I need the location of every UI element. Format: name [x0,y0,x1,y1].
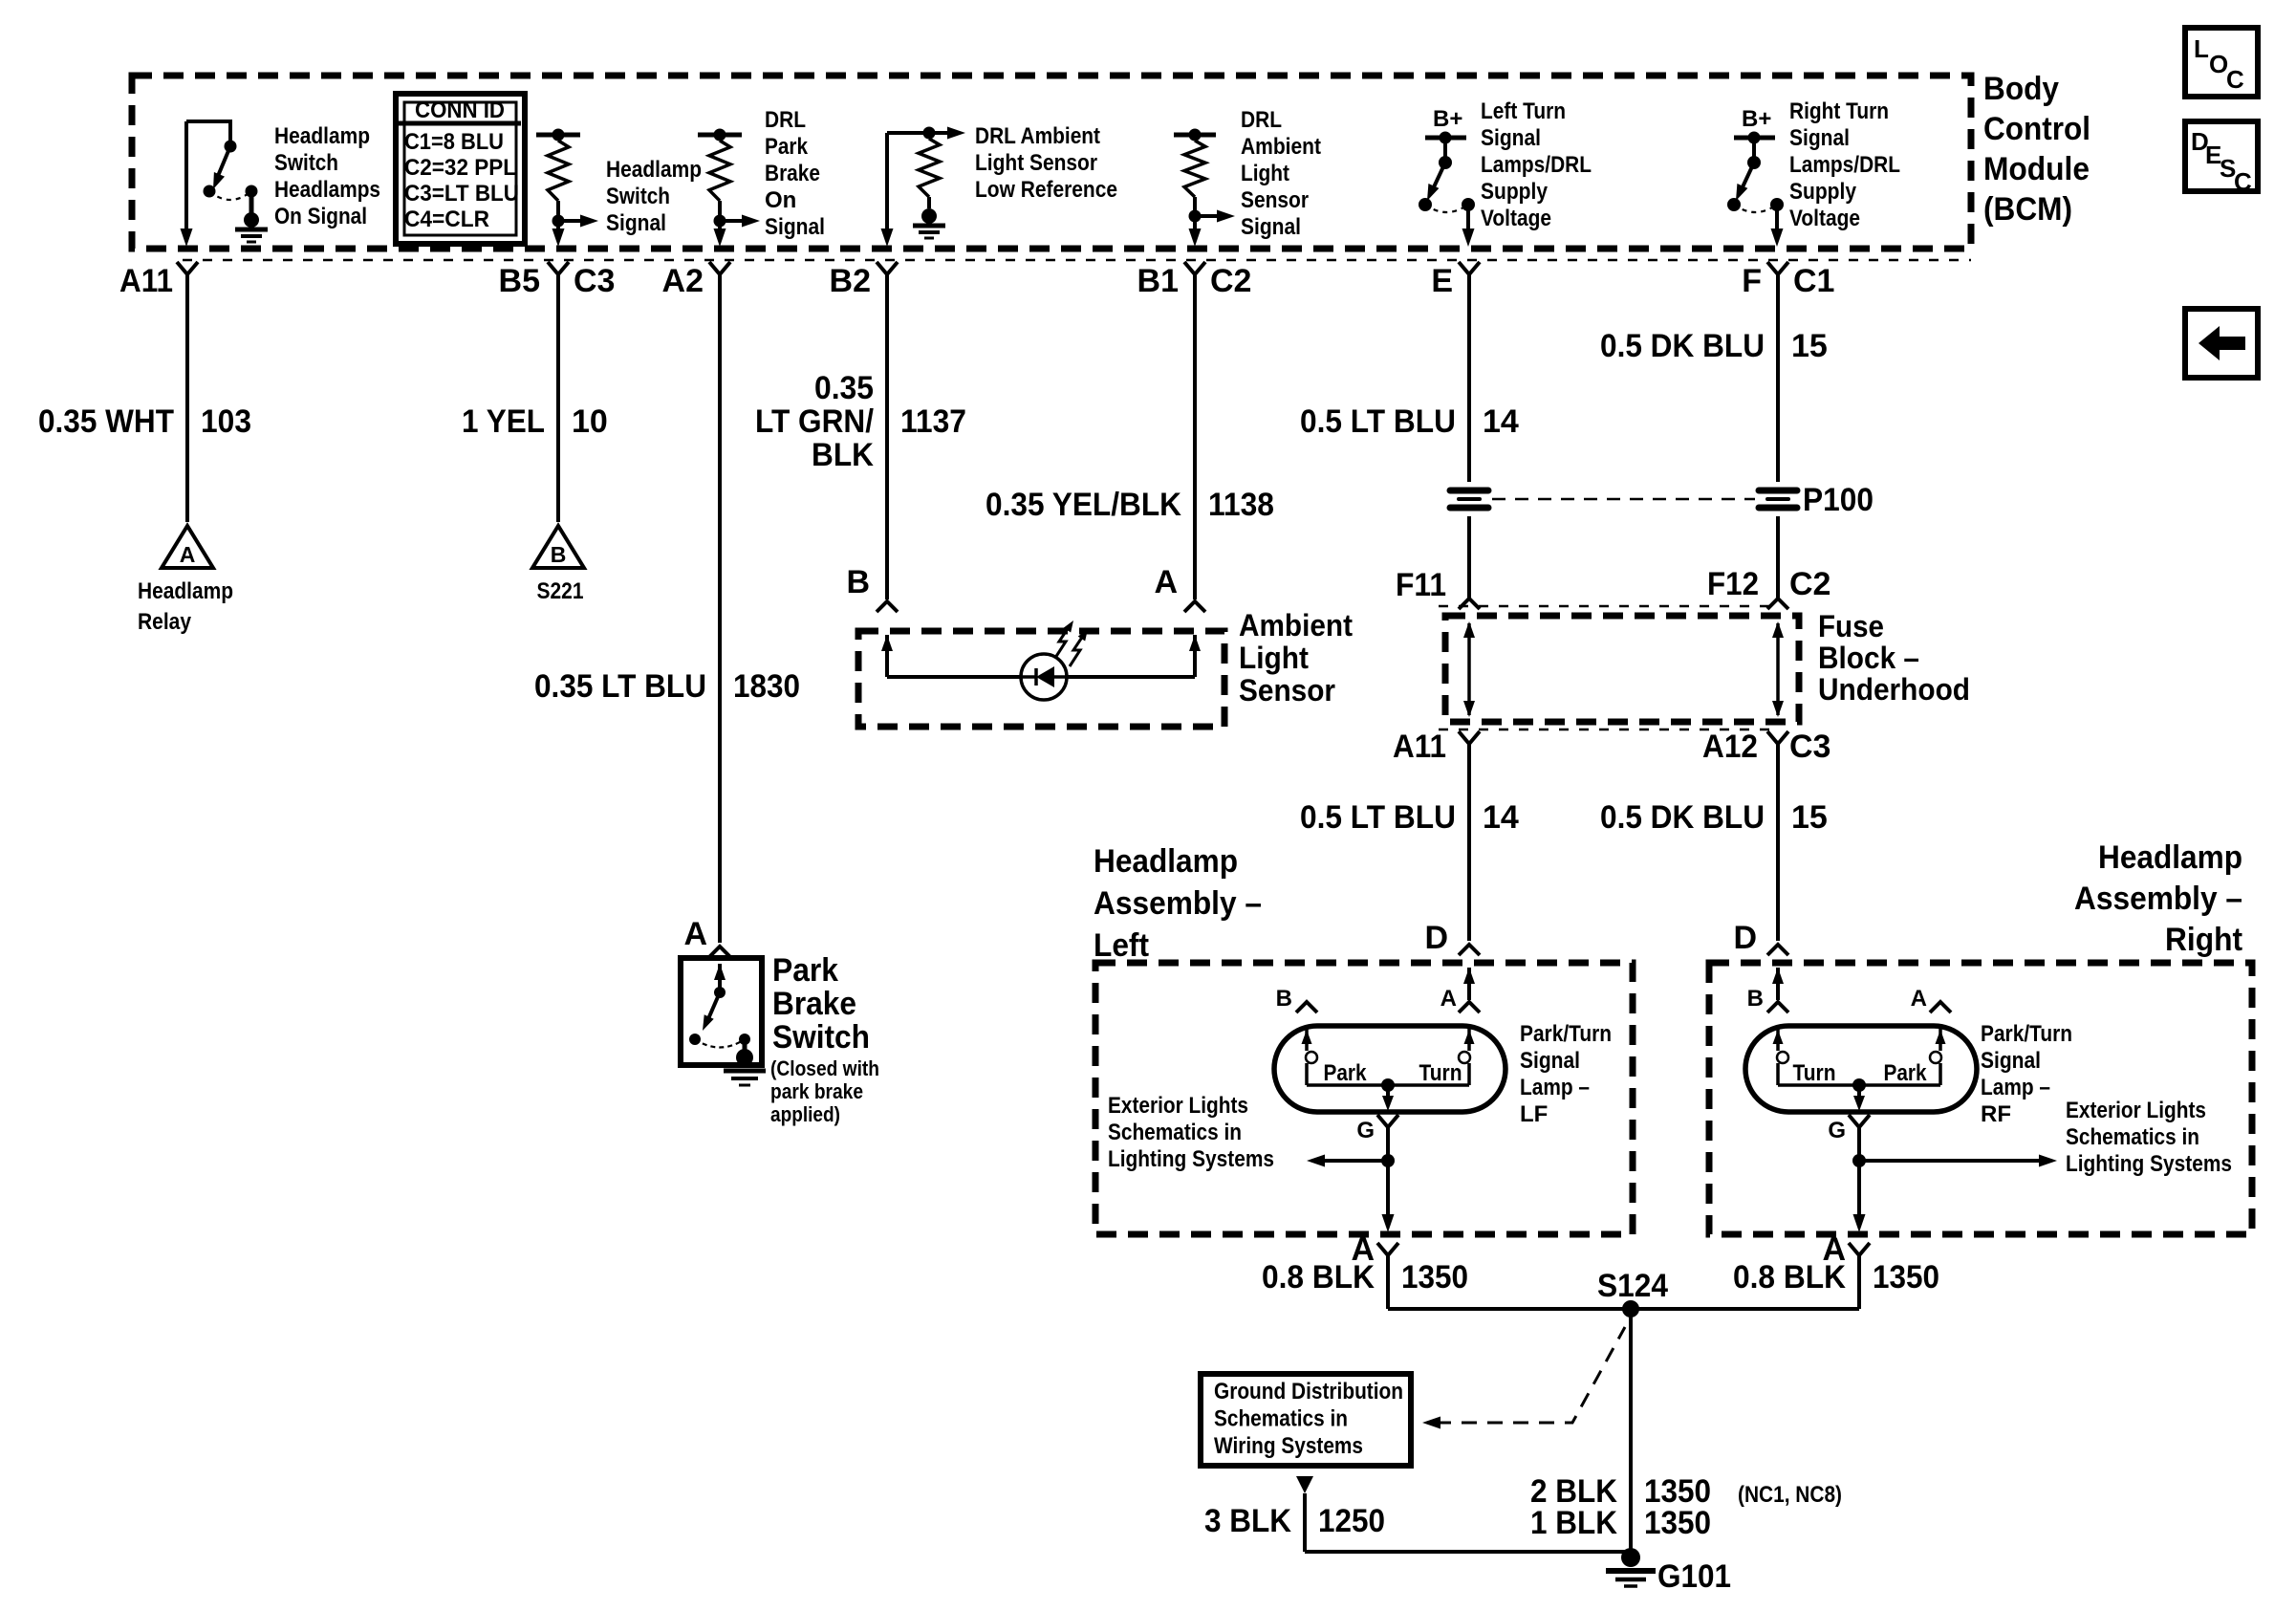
BCM pin connector dashed line [183,259,1971,261]
svg-text:LF: LF [1520,1101,1548,1127]
svg-text:park brake: park brake [770,1079,863,1103]
svg-text:Switch: Switch [772,1019,870,1056]
svg-text:1250: 1250 [1318,1503,1385,1539]
svg-text:C3: C3 [1789,729,1830,765]
svg-text:applied): applied) [770,1102,840,1126]
ALS entry arrow A [1189,635,1201,651]
svg-text:F12: F12 [1707,566,1759,602]
right-turn switch stub [1752,138,1756,161]
wire w7 P100 to fuse block [1776,516,1780,598]
svg-text:B: B [846,564,870,600]
right lamp ground wire [1857,1127,1861,1221]
svg-text:C2=32 PPL: C2=32 PPL [404,155,516,181]
left lamp bulb terminal A chevron [1459,1002,1480,1012]
headlamp switch ground stem [249,191,254,213]
svg-text:0.5 DK BLU: 0.5 DK BLU [1600,328,1765,364]
park brake switch box [681,958,762,1065]
park brake switch left contact dot [689,1034,701,1045]
svg-text:Park: Park [1884,1060,1928,1086]
wire w3 inside BCM [718,221,722,235]
resistor R-headlamp-switch-signal top bar [536,133,580,138]
svg-text:10: 10 [572,403,608,440]
svg-text:On Signal: On Signal [274,204,367,229]
bulb RF left terminal [1776,1026,1780,1051]
svg-text:On: On [765,187,796,213]
right-turn switch bar [1734,136,1775,141]
ALS entry arrow B [881,635,893,651]
svg-text:1 BLK: 1 BLK [1530,1505,1617,1541]
svg-text:Park: Park [765,134,809,160]
bulb LF right terminal [1467,1026,1471,1051]
svg-text:0.5 DK BLU: 0.5 DK BLU [1600,799,1765,836]
svg-text:Light Sensor: Light Sensor [975,150,1097,176]
wire w6 inside BCM [1466,205,1470,235]
svg-text:Schematics in: Schematics in [1108,1120,1242,1145]
headlamp switch pivot dot [225,141,237,153]
resistor low-ref ground [921,208,937,224]
ALS internal wire [887,675,1021,679]
svg-text:Lamp –: Lamp – [1520,1075,1590,1100]
svg-text:A: A [180,542,196,567]
resistor R-park-brake-on top bar [698,133,742,138]
back-arrow legend box [2185,309,2258,378]
resistor R-als-signal zigzag [1184,141,1205,197]
svg-text:C3: C3 [574,263,615,299]
resistor junction dot w2 [552,215,565,228]
resistor R-headlamp-switch-signal zigzag [548,141,569,201]
pin B5 exit arrow [552,229,565,247]
svg-text:B: B [1747,986,1764,1012]
headlamp switch contact dashed arc [209,191,251,200]
park brake pin A chevron [709,947,730,957]
photodiode light arrows [1055,624,1071,658]
svg-text:DRL: DRL [765,107,806,133]
svg-text:Sensor: Sensor [1241,187,1309,213]
svg-text:Light: Light [1241,161,1289,186]
svg-text:0.35 YEL/BLK: 0.35 YEL/BLK [986,487,1181,523]
resistor R-als-signal top dot [1189,129,1202,142]
svg-text:(Closed with: (Closed with [770,1056,879,1080]
wire left lamp to S124 [1386,1255,1390,1309]
svg-text:Turn: Turn [1419,1060,1462,1086]
svg-text:(BCM): (BCM) [1983,191,2072,228]
svg-text:A11: A11 [1393,729,1446,765]
wire w4 inside BCM (up and right) [885,133,889,235]
svg-text:CONN ID: CONN ID [415,98,505,123]
svg-text:Headlamps: Headlamps [274,177,380,203]
park brake switch contact dashed arc [695,1039,745,1048]
wire w5 harness [1193,274,1197,599]
svg-text:F11: F11 [1396,567,1446,603]
branch arrow right w3 [720,219,747,223]
fuse block dashed box [1445,616,1799,722]
wire w7 to P100 [1776,274,1780,482]
park/turn bulb LF outline [1274,1026,1505,1112]
svg-text:F: F [1742,263,1762,299]
right headlamp assembly dashed box [1709,963,2252,1234]
bulb LF filament bus [1307,1083,1469,1087]
pin E exit arrow [1462,229,1475,247]
left lamp G chevron [1377,1115,1398,1127]
right-turn switch pivot dot [1747,156,1761,169]
bulb RF ground lead [1857,1085,1861,1101]
right lamp entry arrow [1772,968,1784,984]
svg-text:Sensor: Sensor [1239,673,1335,708]
svg-text:(NC1, NC8): (NC1, NC8) [1738,1482,1842,1508]
bulb LF center junction dot [1381,1078,1395,1092]
wire w2 inside BCM [556,221,560,235]
wire w1 harness [185,274,189,522]
wire w6 fuse to left lamp [1467,744,1471,941]
svg-text:Underhood: Underhood [1818,672,1970,707]
svg-text:G101: G101 [1657,1558,1731,1595]
svg-text:DRL Ambient: DRL Ambient [975,123,1100,149]
BCM pin chevron at x=1537 [1459,262,1480,274]
svg-text:C1: C1 [1793,263,1834,299]
svg-text:Module: Module [1983,151,2090,187]
right-turn left contact dot [1727,198,1741,211]
svg-text:Headlamp: Headlamp [2098,839,2242,876]
right lamp bulb terminal B chevron [1767,1002,1788,1012]
svg-text:Park: Park [772,952,838,989]
splice S124 dot [1622,1300,1639,1317]
svg-text:Left Turn: Left Turn [1481,98,1566,124]
svg-text:Signal: Signal [1241,214,1301,240]
svg-text:S221: S221 [537,578,584,604]
right-turn right contact dot [1770,198,1784,211]
branch arrow right w5 [1195,214,1222,218]
svg-text:Lighting Systems: Lighting Systems [1108,1146,1274,1172]
svg-text:C1=8 BLU: C1=8 BLU [404,129,504,155]
svg-text:Brake: Brake [765,161,820,186]
svg-text:Headlamp: Headlamp [274,123,370,149]
park brake switch pivot dot [714,987,726,998]
right lamp exit arrow [1853,1214,1866,1232]
svg-text:C2: C2 [1210,263,1251,299]
svg-text:Turn: Turn [1793,1060,1836,1086]
fuse block pin A12 chevron [1767,731,1788,744]
wire w5 inside BCM [1193,216,1197,235]
svg-text:G: G [1828,1118,1846,1143]
svg-text:Switch: Switch [606,184,670,209]
dashed reference link to ground distribution [1436,1327,1625,1423]
left-turn switch bar [1425,136,1466,141]
svg-text:B5: B5 [499,263,540,299]
pin C1 exit arrow [1771,229,1784,247]
svg-text:14: 14 [1483,799,1519,836]
BCM pin chevron at x=584 [548,262,569,274]
wire w7 inside BCM [1775,205,1779,235]
svg-text:Body: Body [1983,71,2059,107]
svg-text:D: D [1424,920,1448,956]
svg-text:Assembly –: Assembly – [1094,885,1262,922]
svg-text:15: 15 [1791,328,1828,364]
left lamp pin A chevron (bottom) [1377,1243,1398,1255]
svg-text:Block –: Block – [1818,641,1919,675]
svg-text:C3=LT BLU: C3=LT BLU [404,181,519,207]
svg-text:A11: A11 [119,263,173,299]
left lamp entry arrow [1463,968,1475,984]
connector P100 right symbol [1759,488,1797,494]
resistor R-headlamp-switch-signal top dot [552,129,565,142]
svg-text:Voltage: Voltage [1789,206,1860,231]
svg-text:B+: B+ [1742,106,1771,132]
ground distribution exit triangle [1296,1476,1313,1493]
bulb LF ground lead [1386,1085,1390,1101]
svg-text:Left: Left [1094,927,1149,964]
pin B1 exit arrow [1189,229,1202,247]
svg-text:Right Turn: Right Turn [1789,98,1889,124]
right lamp branch arrow to exterior lights [1859,1159,2044,1163]
left headlamp assembly dashed box [1095,963,1633,1234]
P100 dashed link [1492,498,1755,501]
svg-text:Exterior Lights: Exterior Lights [2066,1098,2206,1123]
ALS pin A chevron [1184,601,1205,612]
svg-text:Lamps/DRL: Lamps/DRL [1789,152,1900,178]
left-turn left contact dot [1419,198,1432,211]
headlamp switch wire (top bar + left drop) [186,120,232,123]
svg-text:B+: B+ [1433,106,1462,132]
left-turn switch stub [1443,138,1447,161]
svg-text:A12: A12 [1702,729,1758,765]
park brake switch right contact dot [739,1034,750,1045]
svg-text:C: C [2226,65,2244,94]
svg-text:Headlamp: Headlamp [138,578,233,604]
park brake switch ground stem [743,1039,747,1052]
BCM dashed box [132,76,1971,249]
BCM pin chevron at x=1860 [1767,262,1788,274]
svg-text:1350: 1350 [1644,1505,1711,1541]
svg-text:G: G [1356,1118,1375,1143]
branch arrow right w2 [558,219,585,223]
svg-text:Low Reference: Low Reference [975,177,1117,203]
ground G101 symbol [1621,1548,1640,1567]
left lamp exit arrow [1382,1214,1395,1232]
svg-text:Signal: Signal [606,210,666,236]
svg-text:Ambient: Ambient [1239,608,1353,642]
photodiode D1 circle [1021,654,1067,700]
svg-text:3 BLK: 3 BLK [1204,1503,1291,1539]
BCM pin chevron at x=753 [709,262,730,274]
park brake switch ground [736,1049,753,1066]
BCM pin chevron at x=1250 [1184,262,1205,274]
resistor R-park-brake-on top dot [714,129,726,142]
headlamp switch lever [218,146,230,176]
park brake switch entry arrow [714,964,726,980]
pin B2 exit arrow [881,229,894,247]
DESC legend box [2185,121,2258,191]
headlamp relay triangle A [162,526,213,568]
svg-text:Lighting Systems: Lighting Systems [2066,1151,2232,1177]
wire w3 harness [718,274,722,943]
bulb RF right terminal [1939,1026,1942,1051]
wire w6 P100 to fuse block [1467,516,1471,598]
wire w4 harness [885,274,889,599]
wire ground distribution to G101 [1303,1493,1307,1552]
fuse block pin F12 chevron [1767,599,1788,609]
CONN ID table box [396,94,525,244]
svg-text:1350: 1350 [1401,1259,1468,1295]
svg-text:1137: 1137 [900,403,966,440]
svg-text:1 YEL: 1 YEL [462,403,545,440]
left-turn contact dashed arc [1425,205,1468,212]
left-turn switch bar dot [1440,132,1452,144]
svg-text:Signal: Signal [1789,125,1850,151]
svg-text:Ambient: Ambient [1241,134,1321,160]
svg-text:Wiring Systems: Wiring Systems [1214,1433,1363,1459]
svg-text:B1: B1 [1137,263,1179,299]
headlamp switch pivot stub [228,121,232,142]
right lamp bulb terminal A chevron [1930,1002,1951,1012]
right lamp pin D chevron [1767,945,1788,955]
svg-text:Park: Park [1324,1060,1368,1086]
BCM pin chevron at x=196 [177,262,198,274]
svg-text:L: L [2194,34,2209,63]
svg-text:Brake: Brake [772,986,856,1022]
wire w2 harness [556,274,560,522]
left lamp bulb terminal B chevron [1296,1002,1317,1012]
right-turn switch bar dot [1748,132,1761,144]
svg-text:A2: A2 [662,263,704,299]
svg-text:Assembly –: Assembly – [2074,881,2242,917]
svg-text:C: C [2234,167,2252,196]
resistor R-park-brake-on zigzag [709,141,730,201]
bulb LF left terminal [1305,1026,1309,1051]
svg-text:0.8 BLK: 0.8 BLK [1733,1259,1846,1295]
svg-text:Park/Turn: Park/Turn [1981,1021,2072,1047]
svg-text:Ground Distribution: Ground Distribution [1214,1379,1403,1404]
resistor R-als-signal top bar [1174,133,1216,138]
svg-text:Headlamp: Headlamp [606,157,702,183]
right lamp G chevron [1849,1115,1870,1127]
right-turn switch lever [1741,163,1754,191]
park brake switch lever [707,992,720,1021]
svg-text:Park/Turn: Park/Turn [1520,1021,1612,1047]
svg-text:RF: RF [1981,1101,2011,1127]
wire w6 to P100 [1467,274,1471,482]
svg-text:Supply: Supply [1789,179,1857,205]
ambient light sensor dashed box [858,631,1224,727]
svg-text:Signal: Signal [765,214,825,240]
LOC legend box [2185,28,2258,97]
splice S221 triangle B [532,526,584,568]
svg-text:Light: Light [1239,641,1309,675]
svg-text:0.35 WHT: 0.35 WHT [38,403,174,440]
svg-text:Control: Control [1983,111,2090,147]
pin A2 exit arrow [714,229,726,247]
svg-text:C2: C2 [1789,566,1830,602]
svg-text:0.5 LT BLU: 0.5 LT BLU [1300,799,1456,836]
svg-text:Fuse: Fuse [1818,609,1884,643]
resistor junction dot w3 [714,215,726,228]
svg-text:Voltage: Voltage [1481,206,1551,231]
svg-text:0.35: 0.35 [814,370,874,406]
svg-text:DRL: DRL [1241,107,1282,133]
svg-text:Exterior Lights: Exterior Lights [1108,1093,1248,1119]
connector P100 left symbol [1450,488,1488,494]
left-turn right contact dot [1462,198,1475,211]
svg-text:1830: 1830 [733,668,800,705]
fuse block pin A11 chevron [1459,731,1480,744]
resistor low-ref top dot [923,127,936,140]
left-turn switch pivot dot [1439,156,1452,169]
svg-text:15: 15 [1791,799,1828,836]
svg-text:Schematics in: Schematics in [1214,1406,1348,1432]
svg-text:Lamp –: Lamp – [1981,1075,2050,1100]
svg-text:Signal: Signal [1520,1048,1580,1074]
right lamp pin A chevron (bottom) [1849,1243,1870,1255]
ground wire S124 to G101 [1629,1309,1633,1549]
photodiode D1 symbol [1036,666,1054,687]
svg-text:Headlamp: Headlamp [1094,843,1238,880]
wire right lamp to S124 [1857,1255,1861,1309]
svg-text:0.8 BLK: 0.8 BLK [1262,1259,1375,1295]
fuse block top pin dashed line [1439,605,1769,607]
svg-text:D: D [1733,920,1757,956]
svg-text:A: A [1911,986,1927,1012]
headlamp switch right contact dot [246,185,258,198]
park/turn bulb RF outline [1745,1026,1977,1112]
svg-text:103: 103 [201,403,251,440]
branch arrow right w4 [947,127,965,140]
wire w7 fuse to right lamp [1776,744,1780,941]
ground distribution schematics box [1201,1374,1411,1466]
svg-text:0.5 LT BLU: 0.5 LT BLU [1300,403,1456,440]
svg-text:B: B [551,542,567,567]
resistor low-ref zigzag [919,139,940,197]
svg-text:A: A [1440,986,1457,1012]
svg-text:B: B [1276,986,1292,1012]
fuse block internal wire w7 [1776,623,1780,715]
left-turn switch lever [1432,163,1445,191]
svg-text:Signal: Signal [1981,1048,2041,1074]
svg-text:A: A [1154,564,1178,600]
left lamp branch arrow to exterior lights [1320,1159,1388,1163]
BCM pin chevron at x=928 [877,262,898,274]
svg-text:S124: S124 [1597,1268,1668,1304]
svg-text:LT GRN/: LT GRN/ [755,403,875,440]
svg-text:P100: P100 [1803,482,1874,518]
fuse block pin F11 chevron [1459,599,1480,609]
headlamp switch ground [244,212,259,228]
fuse block internal wire w6 [1467,623,1471,715]
svg-text:1350: 1350 [1873,1259,1939,1295]
svg-text:Switch: Switch [274,150,338,176]
svg-text:Schematics in: Schematics in [2066,1124,2199,1150]
left lamp pin D chevron [1459,945,1480,955]
svg-text:A: A [683,916,707,952]
svg-text:14: 14 [1483,403,1519,440]
svg-text:Lamps/DRL: Lamps/DRL [1481,152,1592,178]
svg-text:E: E [1431,263,1453,299]
left lamp ground wire [1386,1127,1390,1221]
bulb RF center junction dot [1852,1078,1866,1092]
svg-text:BLK: BLK [812,437,874,473]
left lamp junction dot [1381,1154,1395,1167]
pin A11 exit arrow [181,229,193,247]
bulb RF filament bus [1778,1083,1940,1087]
svg-text:0.35 LT BLU: 0.35 LT BLU [534,668,706,705]
right lamp junction dot [1852,1154,1866,1167]
svg-text:Relay: Relay [138,609,192,635]
svg-text:1138: 1138 [1208,487,1274,523]
fuse block bottom pin dashed line [1439,729,1769,730]
ALS pin B chevron [877,601,898,612]
svg-text:C4=CLR: C4=CLR [404,207,489,232]
resistor junction dot w5 [1189,210,1202,223]
svg-text:Right: Right [2165,922,2242,958]
headlamp switch left contact dot [204,185,216,198]
